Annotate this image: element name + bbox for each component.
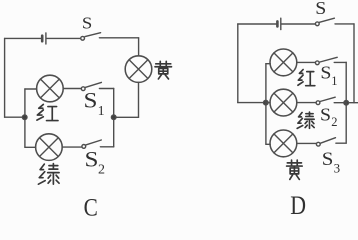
svg-text:2: 2 [98,163,105,178]
wire switch S1 to corner C [99,88,113,90]
wire top-left segment C [5,37,42,39]
battery C negative short plate [41,36,44,42]
svg-text:1: 1 [331,74,337,88]
wire left vertical C [4,38,6,117]
wire battery to switch C [47,37,81,39]
svg-text:S: S [84,89,98,113]
wire left bracket D [265,64,267,145]
node right D [344,100,349,105]
wire branch2 left stub D [266,102,270,104]
switch S blade D [319,18,334,22]
switch S2 blade C [86,140,102,145]
wire right vertical D [353,24,355,103]
wire switch S2 to node D [334,102,346,104]
switch S3 blade D [320,138,335,144]
wire left vertical D [237,24,239,103]
lamp yellow C [125,56,152,83]
node right C [111,115,116,120]
label lv (green) D [297,112,314,128]
label huang (yellow) D [287,160,303,179]
lamp green C [36,134,63,161]
svg-text:C: C [84,194,98,218]
wire lamp green to switch S2 C [62,146,81,148]
svg-text:2: 2 [331,115,337,129]
label hong (red) C [37,104,58,120]
switch S1 pivot C [81,87,85,91]
wire lamp red to switch S1 C [63,88,81,90]
switch S1 pivot D [315,61,319,65]
wire top-left segment D [238,23,277,25]
wire to right node D [346,102,358,104]
svg-text:S: S [320,105,331,125]
wire lamp green to switch S2 D [297,102,316,104]
wire branch1 left stub D [266,63,270,65]
node left D [264,100,269,105]
svg-text:S: S [322,149,334,170]
switch S blade C [85,33,101,37]
wire branch3 left stub D [266,143,270,145]
battery D positive long plate [280,18,282,29]
wire to left node D [238,102,266,104]
switch S2 pivot D [316,101,320,105]
wire switch to corner C [99,37,138,39]
battery D negative short plate [276,21,279,26]
label huang (yellow) C [155,61,172,79]
svg-text:D: D [290,192,306,218]
lamp yellow D [270,130,297,157]
wire battery to switch D [282,23,316,25]
wire switch to corner D [335,23,354,25]
battery C positive long plate [45,33,47,44]
node left C [22,115,27,120]
wire right bracket C [113,89,115,147]
lamp green D [270,89,297,116]
switch S2 pivot C [82,145,86,149]
lamp red C [37,75,64,102]
label hong (red) D [298,70,315,86]
svg-text:3: 3 [334,160,341,175]
wire switch S1 to right bracket D [334,61,346,63]
svg-text:S: S [85,148,99,172]
wire right vertical top C [138,38,140,56]
svg-text:S: S [320,63,331,83]
wire to right node C [114,116,139,118]
svg-text:S: S [315,0,326,19]
switch S3 pivot D [316,142,320,146]
svg-text:S: S [82,13,92,32]
switch S1 blade D [320,57,337,62]
label lv (green) C [38,164,59,185]
wire branch green left stub C [25,146,36,148]
wire switch S2 to corner C [100,146,113,148]
wire to left node C [5,116,25,118]
wire right bracket D [336,62,346,143]
lamp red D [270,49,297,76]
wire lamp yellow to switch S3 D [297,142,317,144]
svg-text:1: 1 [98,104,105,119]
wire lamp yellow down C [138,82,140,117]
switch S pivot C [81,36,85,40]
switch S pivot D [315,22,319,26]
wire branch red left stub C [25,88,37,90]
wire left bracket C [24,89,26,147]
switch S2 blade D [320,97,335,101]
switch S1 blade C [85,82,101,87]
wire lamp red to switch S1 D [297,61,316,63]
